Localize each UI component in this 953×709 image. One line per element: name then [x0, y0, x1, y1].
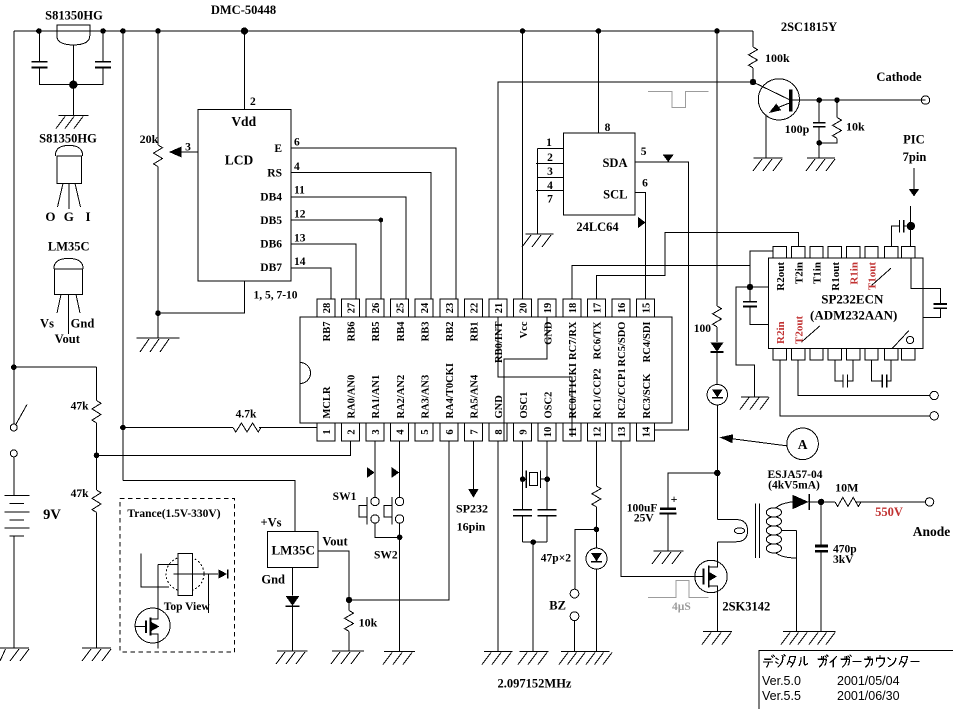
svg-text:RA5/AN4: RA5/AN4 — [470, 374, 481, 418]
wire crystal caps common to ground — [523, 539, 548, 651]
svg-text:S81350HG: S81350HG — [45, 9, 103, 23]
svg-text:12: 12 — [592, 427, 603, 438]
svg-text:RB6: RB6 — [347, 322, 358, 342]
svg-text:4.7k: 4.7k — [236, 409, 257, 421]
svg-text:24: 24 — [420, 302, 431, 313]
svg-text:T1out: T1out — [867, 262, 879, 290]
pin 26 box (top) — [366, 299, 384, 317]
ground G15 (MOSFET source) — [702, 631, 732, 644]
capacitor C1 (left of regulator) — [32, 31, 74, 85]
wire 24LC64 pins 1,2,3,4,7 bus to ground — [536, 148, 564, 234]
svg-text:19: 19 — [543, 303, 554, 314]
ground G12 (PIC GND) — [482, 651, 513, 664]
svg-text:RA0/AN0: RA0/AN0 — [347, 375, 358, 419]
svg-text:3: 3 — [185, 142, 191, 154]
svg-text:RC1/CCP2: RC1/CCP2 — [593, 368, 604, 418]
svg-text:RS: RS — [267, 167, 282, 179]
pin 14 box (bottom) — [637, 423, 655, 441]
svg-text:R2in: R2in — [775, 321, 787, 344]
resistor R8 (buzzer series) — [592, 486, 601, 548]
wire 47k junction to PIC pin 2 (RA0/AN0) — [97, 441, 351, 455]
svg-text:3: 3 — [547, 166, 553, 178]
svg-text:BZ: BZ — [549, 599, 566, 613]
svg-text:Ver.5.0: Ver.5.0 — [762, 674, 801, 688]
crystal X1 circuit: wires from OSC1/OSC2 — [520, 441, 550, 542]
wire SDA to PIC pin 14 (RC3/SCK) — [635, 162, 689, 430]
svg-text:+Vs: +Vs — [260, 516, 281, 530]
svg-text:13: 13 — [617, 427, 628, 438]
svg-text:16: 16 — [617, 303, 628, 314]
pin top 8 box SP232 — [902, 247, 915, 259]
svg-text:6: 6 — [445, 429, 456, 434]
svg-text:RB0/INT: RB0/INT — [494, 322, 505, 363]
ground G17 (100uF) — [652, 551, 683, 564]
node HV/primary junction — [714, 470, 720, 476]
capacitor C8 (pin7-pin8) — [892, 220, 911, 247]
svg-text:RC0/T1CKI: RC0/T1CKI — [568, 363, 579, 418]
transformer top-view drawing — [141, 554, 218, 614]
op-amp U3 SP232ECN body — [769, 258, 923, 348]
LED D3 (in circle) — [586, 548, 607, 651]
crystal X1 2.097152MHz — [523, 471, 548, 489]
switch SW1 (pushbutton) — [359, 497, 379, 524]
pin 15 box (top) — [637, 299, 655, 317]
wire SP232 Vminus to ground — [736, 287, 755, 397]
svg-text:OSC1: OSC1 — [519, 392, 530, 419]
pin 9 box (bottom) — [514, 423, 532, 441]
ground G13 (crystal) — [518, 651, 548, 664]
svg-text:16pin: 16pin — [457, 520, 486, 534]
svg-text:7pin: 7pin — [903, 150, 927, 164]
resistor R-47k #1 — [92, 401, 101, 491]
wire PIC pin8 GND to ground — [497, 441, 499, 651]
svg-text:RC4/SDI: RC4/SDI — [642, 322, 653, 363]
wire R2in to terminal — [780, 360, 930, 416]
resistor R-4.7k — [233, 423, 261, 432]
svg-text:22: 22 — [469, 303, 480, 314]
svg-text:SW2: SW2 — [374, 550, 398, 562]
svg-text:2.097152MHz: 2.097152MHz — [498, 677, 572, 691]
svg-text:9V: 9V — [43, 507, 61, 523]
Trance dashed box — [120, 498, 235, 652]
pin 12 box (bottom) — [587, 423, 605, 441]
diode (top view lead) — [218, 569, 227, 578]
resistor R-10M — [835, 497, 925, 506]
node collector junctions — [816, 97, 839, 103]
pin 19 box (top) — [538, 299, 556, 317]
svg-text:25V: 25V — [634, 513, 655, 525]
resistor R-100 — [713, 306, 722, 342]
svg-text:GND: GND — [543, 321, 554, 345]
pin 10 box (bottom) — [538, 423, 556, 441]
terminal anode — [925, 498, 933, 506]
wire PIC pin18 RC7/RX to SP232 R2out — [572, 251, 774, 299]
potentiometer R-20k — [154, 31, 163, 338]
capacitor C-100p — [813, 100, 825, 146]
svg-text:1, 5, 7-10: 1, 5, 7-10 — [253, 290, 297, 302]
pin 17 box (top) — [587, 299, 605, 317]
pin bottom 8 box SP232 — [902, 348, 915, 360]
capacitor C5 47p (OSC2) — [538, 510, 557, 516]
svg-text:28: 28 — [322, 303, 333, 314]
label title (katakana) — [764, 655, 920, 667]
ground G7 (battery) — [0, 648, 29, 661]
svg-text:21: 21 — [494, 303, 505, 314]
svg-text:2SC1815Y: 2SC1815Y — [781, 20, 837, 34]
svg-text:2: 2 — [250, 96, 256, 108]
battery BT1 9V — [4, 457, 29, 648]
svg-text:25: 25 — [396, 303, 407, 314]
svg-text:T1in: T1in — [812, 262, 824, 284]
svg-text:47k: 47k — [71, 488, 90, 500]
svg-text:R2out: R2out — [775, 262, 787, 291]
svg-text:24LC64: 24LC64 — [576, 220, 619, 234]
ground G4 (100p/10k) — [806, 158, 835, 171]
svg-text:DB5: DB5 — [260, 215, 282, 227]
switch SW2 (pushbutton) — [384, 497, 404, 524]
pin bottom 3 box SP232 — [810, 348, 823, 360]
wire SCL to PIC pin 15 (RC4/SDI) — [635, 192, 646, 299]
node battery/47k tap — [11, 364, 97, 400]
svg-text:RC2/CCP1: RC2/CCP1 — [617, 368, 628, 418]
svg-text:SCL: SCL — [603, 188, 627, 202]
svg-text:18: 18 — [568, 303, 579, 314]
svg-text:G: G — [64, 209, 74, 224]
wire LCD DB6 to PIC RB6 (pin 27) — [291, 244, 356, 299]
svg-text:3kV: 3kV — [833, 554, 854, 566]
wire PIC pin4 RA2/AN2 to SW2 — [399, 441, 401, 497]
svg-text:8: 8 — [494, 429, 505, 434]
wire HV rail x=717 from top rail — [716, 31, 718, 306]
ground G3 (emitter) — [753, 158, 782, 171]
svg-text:(4kV5mA): (4kV5mA) — [768, 480, 820, 492]
terminal T2out — [930, 391, 938, 399]
ground G5 (24LC64) — [522, 234, 554, 247]
svg-text:2: 2 — [547, 152, 553, 164]
svg-text:SP232: SP232 — [456, 502, 488, 516]
pin top 7 box SP232 — [885, 247, 898, 259]
capacitor C6 (SP232 left charge pump) — [743, 287, 769, 324]
pin 22 box (top) — [464, 299, 482, 317]
svg-text:9: 9 — [519, 429, 530, 434]
transformer T1 secondary winding — [766, 502, 796, 631]
op-amp U-PIC microcontroller body (28-pin DIP) — [300, 317, 672, 423]
sensor U4 LM35C block — [268, 532, 318, 568]
node marker pin4 — [391, 467, 399, 478]
wire PIC pin17 RC6/TX to SP232 T2in — [596, 232, 798, 299]
wire MCLR pull line y=427.5 — [120, 425, 317, 431]
wire LCD DB5 to PIC RB5 (pin 26) — [291, 218, 383, 299]
pin 28 box (top) — [317, 299, 335, 317]
capacitor C9 (SP232 bottom, pins 4-5) — [835, 360, 853, 388]
wire V+ branch to SP232 left — [747, 265, 769, 290]
svg-text:Ver.5.5: Ver.5.5 — [762, 689, 801, 703]
node SCL direction marker — [638, 217, 646, 228]
pin 13 box (bottom) — [612, 423, 630, 441]
wire LM35C Vout to 10k node — [318, 551, 352, 603]
wire LCD DB4 to PIC RB4 (pin 25) — [291, 197, 406, 299]
capacitor C12 470p 3kV — [815, 502, 828, 631]
svg-text:RB3: RB3 — [420, 322, 431, 342]
svg-text:6: 6 — [294, 137, 300, 149]
ground G10 (10k) — [331, 651, 364, 664]
ground G1 (regulator) — [56, 116, 88, 129]
switch SW-PWR (left border) — [10, 405, 27, 457]
resistor R-47k #2 — [92, 490, 101, 648]
pin 18 box (top) — [563, 299, 581, 317]
pin 5 box (bottom) — [415, 423, 433, 441]
ground G6 (SP232) — [740, 397, 769, 410]
pin top 6 box SP232 — [865, 247, 878, 259]
pin bottom 2 box SP232 — [792, 348, 805, 360]
svg-text:12: 12 — [294, 209, 306, 221]
ground G8 (47k chain) — [82, 648, 111, 661]
pin 25 box (top) — [391, 299, 409, 317]
svg-text:RC6/TX: RC6/TX — [593, 321, 604, 359]
svg-text:11: 11 — [568, 427, 579, 437]
wire branch to 100uF — [668, 473, 718, 509]
svg-text:4: 4 — [294, 161, 300, 173]
svg-text:Top View: Top View — [164, 601, 211, 613]
wiper arrow to LCD pin 3 — [169, 147, 198, 158]
svg-text:100: 100 — [694, 323, 712, 335]
svg-text:Vcc: Vcc — [519, 321, 530, 338]
svg-text:R1in: R1in — [848, 262, 860, 285]
wire tube pulse line to RB0/INT pin21 — [498, 82, 753, 299]
svg-text:47k: 47k — [71, 401, 90, 413]
svg-text:550V: 550V — [875, 505, 903, 519]
svg-text:DB4: DB4 — [260, 192, 282, 204]
capacitor C4 47p (OSC1) — [513, 510, 532, 516]
svg-text:RC7/RX: RC7/RX — [568, 321, 579, 360]
svg-text:Gnd: Gnd — [261, 573, 285, 587]
svg-text:RB1: RB1 — [470, 322, 481, 342]
wire LCD E to PIC RB2 (pin 23) — [291, 148, 456, 299]
capacitor C11 100uF 25V electrolytic — [659, 509, 676, 551]
ground G16 (transformer/470p wide) — [781, 631, 836, 644]
transformer T1 primary loop (single turn) — [717, 520, 747, 561]
annotation ammeter A with arrow — [720, 428, 819, 460]
regulator U-REG S81350HG (dome on rail) — [57, 25, 90, 115]
svg-text:14: 14 — [642, 426, 653, 437]
svg-text:100k: 100k — [765, 51, 790, 65]
capacitor C7 (SP232 right charge pump) — [911, 258, 947, 317]
svg-text:2001/05/04: 2001/05/04 — [837, 674, 900, 688]
svg-text:13: 13 — [294, 232, 306, 244]
svg-text:10k: 10k — [359, 616, 378, 630]
resistor R-10k (tube load) — [819, 100, 841, 158]
svg-text:17: 17 — [592, 303, 603, 314]
svg-text:3: 3 — [371, 429, 382, 434]
svg-text:5: 5 — [420, 429, 431, 434]
pin 16 box (top) — [612, 299, 630, 317]
svg-text:A: A — [798, 437, 808, 452]
wire left border (rail to switch) — [13, 31, 15, 424]
pin 8 box (bottom) — [489, 423, 507, 441]
svg-text:T2out: T2out — [793, 316, 805, 344]
svg-text:S81350HG: S81350HG — [39, 132, 97, 146]
svg-text:23: 23 — [445, 303, 456, 314]
wire +Vs feed to LM35C — [123, 481, 295, 532]
svg-text:RB5: RB5 — [371, 322, 382, 342]
svg-text:+: + — [671, 492, 678, 506]
svg-text:RA4/T0CKI: RA4/T0CKI — [445, 363, 456, 418]
svg-text:4µS: 4µS — [672, 601, 691, 613]
transistor-package S81350HG drawing — [55, 145, 82, 209]
gray pulse annotation (gate drive) — [648, 581, 708, 598]
resistor R-100k — [749, 31, 758, 85]
pin 20 box (top) — [514, 299, 532, 317]
pin bottom 6 box SP232 — [865, 348, 878, 360]
wire PIC pin12 RC1/CCP2 chain — [595, 441, 597, 486]
pin 1 box (bottom) — [317, 423, 335, 441]
svg-text:RA3/AN3: RA3/AN3 — [420, 375, 431, 419]
pin top 2 box SP232 — [792, 247, 805, 259]
pin top 4 box SP232 — [828, 247, 841, 259]
svg-text:6: 6 — [642, 178, 648, 190]
svg-text:2SK3142: 2SK3142 — [722, 600, 770, 614]
svg-text:Anode: Anode — [913, 524, 951, 539]
svg-text:100p: 100p — [785, 122, 810, 136]
svg-text:RA1/AN1: RA1/AN1 — [371, 375, 382, 419]
svg-text:Vout: Vout — [55, 332, 81, 346]
svg-text:RA2/AN2: RA2/AN2 — [396, 375, 407, 419]
pin bottom 4 box SP232 — [828, 348, 841, 360]
wire Vcc pin20 from rail — [522, 31, 524, 299]
svg-text:T2in: T2in — [793, 262, 805, 284]
wire LCD Vdd pin 2 from rail — [244, 31, 246, 110]
ground G14 (BZ/LED wide) — [559, 651, 612, 664]
pin top 3 box SP232 — [810, 247, 823, 259]
pin 4 box (bottom) — [391, 423, 409, 441]
svg-text:Vdd: Vdd — [231, 114, 256, 129]
svg-text:LM35C: LM35C — [48, 240, 90, 254]
pin top 1 box SP232 — [773, 247, 786, 259]
transistor Q3 (top view MOSFET) — [135, 564, 170, 648]
svg-text:7: 7 — [547, 194, 553, 206]
svg-text:7: 7 — [469, 429, 480, 434]
pin 24 box (top) — [415, 299, 433, 317]
wire LCD DB7 to PIC RB7 (pin 28) — [291, 268, 331, 299]
pin 11 box (bottom) — [563, 423, 581, 441]
pin 6 box (bottom) — [440, 423, 458, 441]
wire PIC pin6 RA4/T0CKI to Vout node — [349, 441, 449, 600]
wire PIC pin3 RA1/AN1 to SW1 — [374, 441, 376, 497]
capacitor C2 (right of regulator) — [73, 31, 111, 85]
svg-text:8: 8 — [605, 122, 611, 134]
node SDA direction marker — [663, 155, 674, 163]
svg-text:RB7: RB7 — [322, 322, 333, 342]
svg-text:LM35C: LM35C — [272, 543, 315, 558]
svg-text:SW1: SW1 — [333, 491, 357, 503]
svg-text:26: 26 — [371, 303, 382, 314]
svg-text:Trance(1.5V-330V): Trance(1.5V-330V) — [127, 508, 220, 520]
wire top power rail — [14, 30, 753, 32]
pin bottom 1 box SP232 — [773, 348, 786, 360]
diode D4 (LM35C gnd) — [286, 568, 300, 651]
pin 23 box (top) — [440, 299, 458, 317]
pin 2 box (bottom) — [341, 423, 359, 441]
wire T2out to terminal — [798, 360, 930, 396]
diode D1 — [711, 343, 724, 385]
svg-text:10M: 10M — [835, 481, 858, 495]
transistor-package LM35C drawing — [54, 258, 83, 334]
svg-text:LCD: LCD — [225, 153, 254, 168]
svg-text:10: 10 — [543, 427, 554, 438]
svg-text:1: 1 — [546, 137, 552, 149]
pin 27 box (top) — [341, 299, 359, 317]
svg-text:RC5/SDO: RC5/SDO — [617, 322, 628, 367]
wire PIC7pin net to SP232 pin 8 — [907, 206, 915, 247]
transistor Q2 2SK3142 MOSFET — [621, 441, 727, 631]
svg-text:DB6: DB6 — [260, 239, 282, 251]
ground G11 (SW2) — [383, 651, 415, 664]
svg-text:20k: 20k — [140, 132, 159, 146]
svg-text:SP232ECN: SP232ECN — [821, 292, 884, 307]
pin bottom 5 box SP232 — [847, 348, 860, 360]
wire SW1/SW2 commons to ground — [375, 523, 402, 651]
gray pulse annotation (negative pulse) — [648, 91, 708, 107]
pin 7 box (bottom) — [464, 423, 482, 441]
svg-text:5: 5 — [641, 146, 647, 158]
wire internal RB0/INT pin21 to RC0/T1CKI pin11 — [498, 317, 572, 437]
buzzer BZ terminals — [570, 529, 596, 651]
wire LCD RS to PIC RB3 (pin 24) — [291, 173, 431, 300]
svg-text:11: 11 — [294, 185, 305, 197]
pin 21 box (top) — [489, 299, 507, 317]
svg-text:R1out: R1out — [830, 262, 842, 291]
resistor R7 10k (Vout load) — [345, 600, 354, 651]
svg-text:OSC2: OSC2 — [543, 392, 554, 419]
terminal cathode — [921, 96, 929, 104]
LCD module U-LCD DMC-50448 — [198, 110, 291, 282]
svg-text:4: 4 — [396, 429, 407, 435]
svg-text:(ADM232AAN): (ADM232AAN) — [810, 308, 897, 323]
node rail junction dots — [36, 27, 720, 34]
svg-text:DMC-50448: DMC-50448 — [211, 3, 276, 17]
ground G9 (LM35C) — [276, 651, 308, 664]
svg-text:Vout: Vout — [322, 534, 348, 548]
arrow off-page PIC 7pin — [909, 168, 919, 197]
EEPROM U2 24LC64 — [564, 133, 635, 215]
pin 3 box (bottom) — [366, 423, 384, 441]
svg-text:Gnd: Gnd — [71, 317, 95, 331]
transistor Q1 2SC1815Y — [753, 79, 926, 158]
svg-text:47p×2: 47p×2 — [541, 553, 571, 565]
svg-text:27: 27 — [346, 303, 357, 314]
pin bottom 7 box SP232 — [885, 348, 898, 360]
svg-text:E: E — [274, 143, 282, 155]
svg-text:Cathode: Cathode — [876, 70, 922, 84]
wire +9V vertical feed x=122.9 (rail down to +Vs run) — [122, 31, 124, 481]
diode D5 ESJA57-04 — [790, 494, 836, 510]
svg-text:2: 2 — [346, 429, 357, 434]
capacitor C10 (SP232 bottom, pins 6-7) — [872, 360, 892, 388]
version box — [759, 651, 953, 709]
svg-text:20: 20 — [519, 303, 530, 314]
svg-text:4: 4 — [547, 180, 553, 192]
wire LCD pins 1,5,7-10 to ground — [158, 281, 245, 313]
svg-text:SDA: SDA — [602, 156, 627, 170]
svg-text:MCLR: MCLR — [322, 386, 333, 418]
LED D2 (in circle) — [707, 385, 727, 520]
svg-text:PIC: PIC — [903, 133, 925, 147]
svg-text:DB7: DB7 — [260, 262, 282, 274]
pin top 5 box SP232 — [847, 247, 860, 259]
terminal R2in — [930, 412, 938, 420]
svg-text:14: 14 — [294, 256, 306, 268]
arrow off-page SP232 16pin (PIC pin7) — [468, 441, 478, 498]
